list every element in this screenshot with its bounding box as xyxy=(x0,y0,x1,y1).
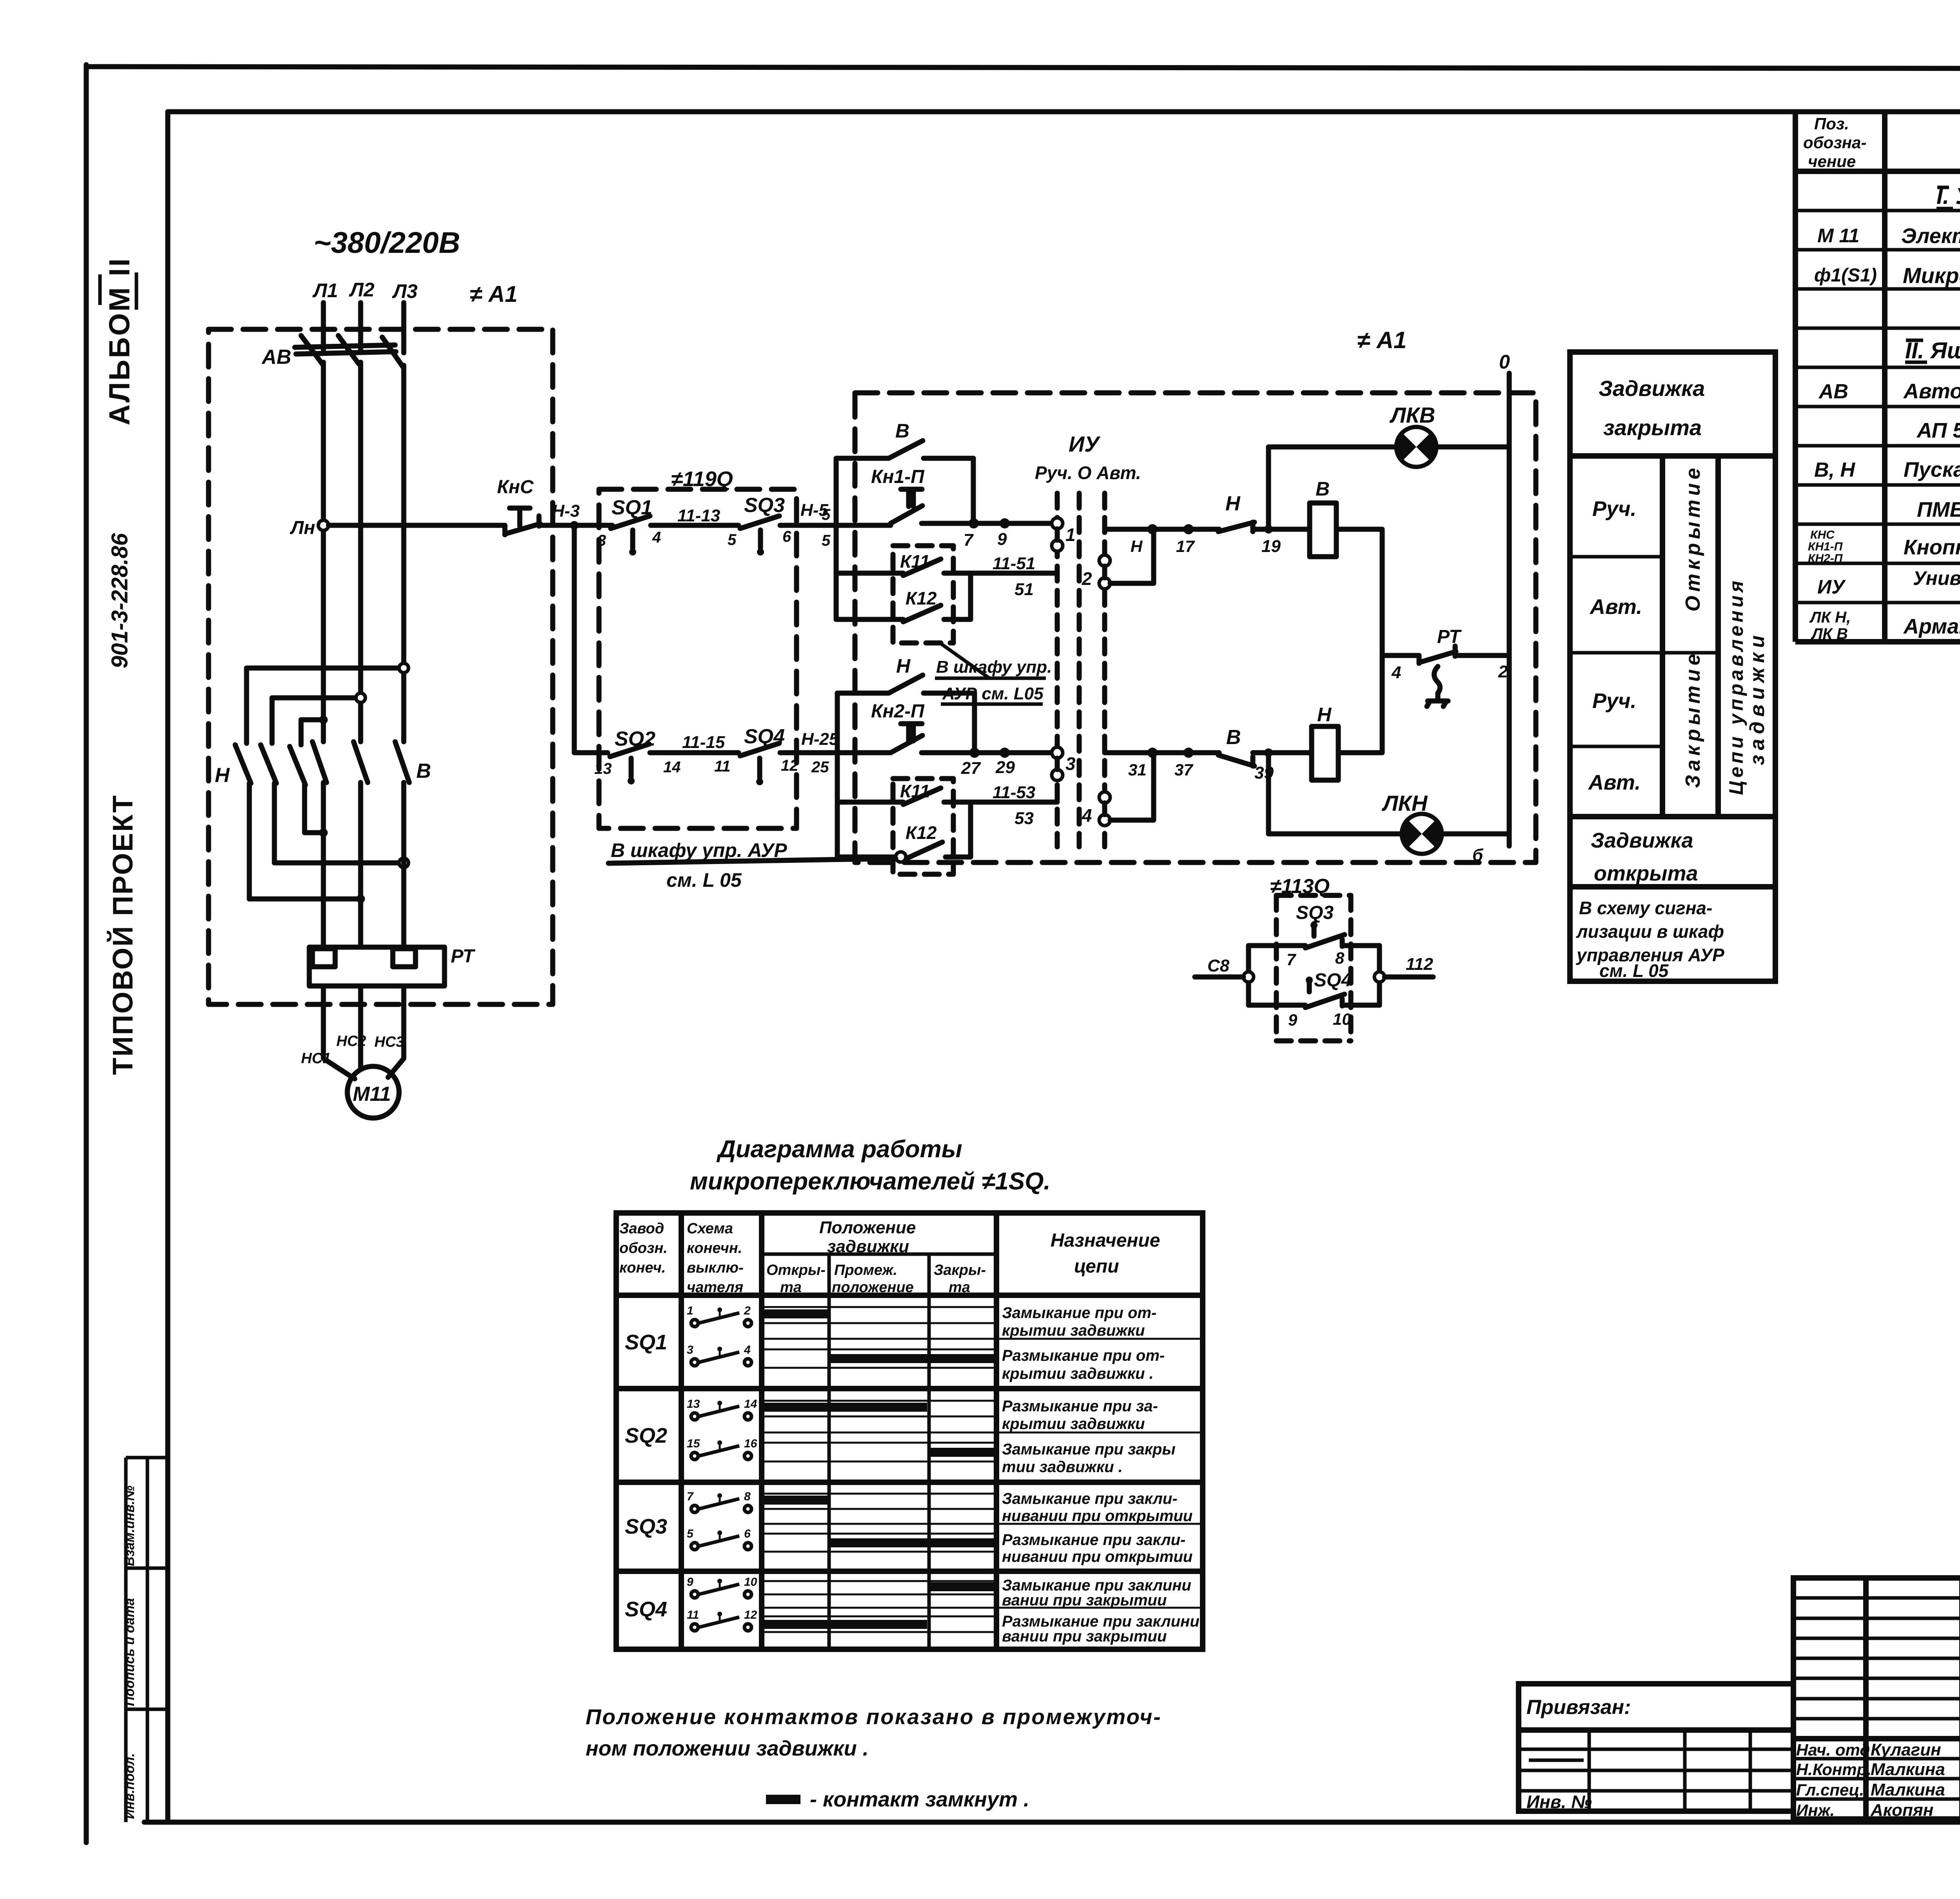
self hold contact В xyxy=(889,420,923,458)
svg-text:Поз.: Поз. xyxy=(1814,114,1849,133)
node 39 xyxy=(1253,750,1312,755)
auxiliary contact К11 lower xyxy=(837,781,971,804)
svg-text:2: 2 xyxy=(744,1304,751,1317)
wire Н-25 to lower button box xyxy=(780,750,891,755)
svg-text:37: 37 xyxy=(1174,761,1193,779)
svg-text:ИУ: ИУ xyxy=(1069,432,1101,456)
svg-text:Замыкание при закры: Замыкание при закры xyxy=(1002,1441,1176,1458)
svg-text:ф1(S1): ф1(S1) xyxy=(1814,265,1877,286)
svg-text:РТ: РТ xyxy=(1437,626,1462,647)
svg-text:крытии задвижки: крытии задвижки xyxy=(1002,1415,1145,1432)
svg-text:11-13: 11-13 xyxy=(677,506,720,525)
ИУ contact 4 with loop xyxy=(1082,753,1154,826)
svg-text:Арматура сигнальная АЕ-3211У: Арматура сигнальная АЕ-3211У3 xyxy=(1903,615,1960,638)
sidebar bottom table xyxy=(122,1458,168,1822)
svg-text:В: В xyxy=(1316,478,1330,500)
svg-text:Гл.спец.: Гл.спец. xyxy=(1796,1781,1864,1799)
svg-text:Цепи управления: Цепи управления xyxy=(1725,577,1747,795)
svg-text:Инв. №: Инв. № xyxy=(1526,1792,1592,1812)
svg-text:≠ А1: ≠ А1 xyxy=(1357,327,1406,353)
svg-text:закрыта: закрыта xyxy=(1603,415,1702,440)
svg-text:Н.Контр.: Н.Контр. xyxy=(1796,1760,1871,1779)
wires relay to motor xyxy=(323,986,404,1079)
svg-text:11: 11 xyxy=(714,758,731,775)
svg-text:4: 4 xyxy=(652,529,661,546)
node 19 xyxy=(1253,527,1310,532)
svg-text:Замыкание при от-: Замыкание при от- xyxy=(1002,1304,1156,1322)
svg-text:5: 5 xyxy=(687,1527,694,1540)
push button station Кн2 box xyxy=(837,693,975,857)
svg-text:Пускатель магнитный: Пускатель магнитный xyxy=(1904,458,1960,481)
svg-text:SQ4: SQ4 xyxy=(625,1598,667,1621)
svg-text:SQ3: SQ3 xyxy=(744,494,785,517)
note wire АУР lower xyxy=(608,839,896,891)
svg-text:К12: К12 xyxy=(906,822,937,843)
wire phase Л3 stub xyxy=(401,303,407,353)
diagram table grid xyxy=(616,1213,1203,1649)
diagram table header xyxy=(619,1218,1160,1296)
svg-text:АП 50-3МТ Iрасц.= 6,4А.: АП 50-3МТ Iрасц.= 6,4А. xyxy=(1916,419,1960,442)
wire main row Н through buttons xyxy=(922,750,1057,755)
svg-text:ИУ: ИУ xyxy=(1817,576,1846,598)
svg-text:КН2-П: КН2-П xyxy=(1808,552,1843,565)
push button Кн2-П xyxy=(871,701,925,753)
svg-text:12: 12 xyxy=(781,757,799,774)
svg-text:Малкина: Малкина xyxy=(1871,1760,1945,1779)
row I У механизма xyxy=(1936,183,1960,209)
push button Кн1-П xyxy=(871,467,925,523)
svg-text:Акопян: Акопян xyxy=(1870,1801,1933,1820)
svg-text:В, Н: В, Н xyxy=(1814,459,1855,481)
wire 11-13 xyxy=(651,523,739,528)
terminal 7 xyxy=(969,518,979,528)
svg-text:4: 4 xyxy=(1391,663,1401,682)
svg-text:Н: Н xyxy=(1131,537,1143,556)
svg-text:Взам.инв.№: Взам.инв.№ xyxy=(122,1485,137,1566)
svg-text:11-51: 11-51 xyxy=(993,554,1035,573)
svg-text:13: 13 xyxy=(594,760,612,777)
ИУ contact 1 xyxy=(1052,518,1076,551)
push button station Кн1 box xyxy=(836,458,973,619)
wire phase Л2 xyxy=(358,362,363,742)
svg-text:Н: Н xyxy=(1317,704,1332,726)
inner frame left xyxy=(165,112,171,1822)
svg-text:3: 3 xyxy=(1065,753,1076,774)
ИУ contact 3 xyxy=(1052,747,1076,781)
svg-text:Открытие: Открытие xyxy=(1682,464,1704,612)
wire 11-15 xyxy=(650,750,739,755)
svg-text:10: 10 xyxy=(744,1576,757,1589)
svg-text:НС2: НС2 xyxy=(336,1033,366,1049)
terminal 37 xyxy=(1183,748,1194,758)
sidebar text АЛЬБОМ II xyxy=(100,257,136,425)
svg-text:Размыкание при за-: Размыкание при за- xyxy=(1002,1398,1158,1415)
cabinet А1 control dashed box xyxy=(855,393,1536,862)
svg-text:25: 25 xyxy=(811,759,829,776)
svg-text:та: та xyxy=(780,1279,802,1296)
svg-text:9: 9 xyxy=(687,1576,693,1589)
svg-text:8: 8 xyxy=(744,1490,751,1503)
svg-text:крытии задвижки .: крытии задвижки . xyxy=(1002,1365,1154,1382)
wire lamp branch ЛКВ xyxy=(1269,447,1396,529)
svg-text:Л1: Л1 xyxy=(312,280,338,301)
wire 11-53 xyxy=(971,800,1057,805)
svg-text:задвижки: задвижки xyxy=(827,1237,909,1256)
svg-text:19: 19 xyxy=(1261,537,1281,556)
svg-text:- контакт замкнут .: - контакт замкнут . xyxy=(810,1788,1029,1811)
motor М11 xyxy=(347,1066,399,1118)
svg-text:К12: К12 xyxy=(906,588,937,608)
svg-text:см. L 05: см. L 05 xyxy=(1599,960,1669,981)
svg-text:Закрытие: Закрытие xyxy=(1682,650,1704,788)
svg-text:Н: Н xyxy=(1225,492,1241,515)
switch SQ4 in 113Q xyxy=(1249,970,1379,1029)
svg-text:конеч.: конеч. xyxy=(619,1260,666,1276)
svg-text:открыта: открыта xyxy=(1594,862,1698,885)
svg-text:В: В xyxy=(416,760,431,782)
svg-text:Кн2-П: Кн2-П xyxy=(871,701,925,722)
auxiliary contact К12 xyxy=(836,573,971,622)
svg-text:Авт.: Авт. xyxy=(1588,771,1641,794)
row ф1 микропереключатель xyxy=(1814,254,1960,290)
block 113Q side rails and terminals xyxy=(1195,946,1434,1005)
svg-text:нивании при открытии: нивании при открытии xyxy=(1002,1548,1192,1565)
signal lamp ЛКН xyxy=(1381,791,1484,865)
limit switch SQ3 xyxy=(728,494,791,556)
wire phase Л3 xyxy=(401,365,407,742)
limit switch block ≠113Q xyxy=(1270,875,1351,1041)
svg-text:Электродвигатель 4АХС80А4-3: Электродвигатель 4АХС80А4-3 xyxy=(1901,224,1960,248)
terminal 31 xyxy=(1147,748,1158,758)
svg-text:3: 3 xyxy=(597,532,606,549)
svg-text:SQ3: SQ3 xyxy=(1296,902,1334,923)
svg-text:7: 7 xyxy=(1287,950,1296,969)
svg-text:14: 14 xyxy=(744,1398,757,1411)
limit switch SQ2 xyxy=(594,728,681,784)
inner frame top xyxy=(168,109,1960,114)
universal switch ИУ xyxy=(1035,432,1141,847)
svg-text:Н: Н xyxy=(215,764,230,787)
svg-text:7: 7 xyxy=(964,530,974,550)
svg-text:Подпись и дата: Подпись и дата xyxy=(122,1598,137,1706)
row кнопка управления xyxy=(1808,528,1960,565)
svg-text:Положение контактов показа: Положение контактов показано в промежуто… xyxy=(586,1705,1162,1729)
svg-text:Л3: Л3 xyxy=(392,280,417,302)
stop button КнС xyxy=(497,477,540,535)
ИУ contact 2 with loop xyxy=(1082,529,1154,589)
svg-text:53: 53 xyxy=(1014,809,1034,828)
note wire АУР upper xyxy=(935,642,1052,704)
svg-text:Нач. отд: Нач. отд xyxy=(1796,1741,1870,1759)
svg-text:вании при закрытии: вании при закрытии xyxy=(1002,1628,1167,1645)
svg-text:6: 6 xyxy=(744,1527,751,1540)
svg-text:Кнопка управления КЕ-011У3: Кнопка управления КЕ-011У3 xyxy=(1904,536,1960,559)
svg-text:С8: С8 xyxy=(1207,956,1230,975)
thermal contact РТ row xyxy=(1382,626,1509,706)
terminal 17 xyxy=(1183,524,1194,534)
svg-text:цепи: цепи xyxy=(1074,1256,1119,1277)
svg-text:5: 5 xyxy=(822,532,831,549)
svg-text:М11: М11 xyxy=(353,1083,391,1106)
svg-text:задвижки: задвижки xyxy=(1746,631,1769,765)
svg-text:Промеж.: Промеж. xyxy=(834,1262,897,1278)
svg-text:8: 8 xyxy=(1335,949,1345,967)
svg-text:Замыкание при закли-: Замыкание при закли- xyxy=(1002,1490,1178,1507)
svg-text:31: 31 xyxy=(1128,761,1147,779)
svg-text:б: б xyxy=(1472,846,1484,865)
svg-text:Задвижка: Задвижка xyxy=(1599,376,1705,401)
interlock contact В xyxy=(1218,726,1254,766)
row универсальный переключатель xyxy=(1817,567,1960,605)
svg-text:Лн: Лн xyxy=(290,517,315,538)
circuit breaker АВ xyxy=(295,336,403,367)
svg-text:В: В xyxy=(1226,726,1241,749)
svg-text:Авт.: Авт. xyxy=(1589,595,1642,619)
parts table header xyxy=(1803,114,1960,171)
svg-text:обозн.: обозн. xyxy=(619,1240,668,1256)
svg-text:Инв.подл.: Инв.подл. xyxy=(122,1753,137,1819)
wire row Н to relay xyxy=(1105,750,1219,755)
svg-text:27: 27 xyxy=(961,759,981,778)
svg-text:0: 0 xyxy=(1499,351,1510,373)
terminal Н xyxy=(1147,524,1158,534)
svg-text:Кн1-П: Кн1-П xyxy=(871,467,925,487)
svg-text:Малкина: Малкина xyxy=(1871,1780,1945,1799)
svg-text:Схема: Схема xyxy=(687,1220,733,1237)
svg-text:Инж.: Инж. xyxy=(1796,1801,1835,1819)
svg-text:1: 1 xyxy=(1065,525,1076,545)
switch SQ3 in 113Q xyxy=(1249,902,1379,969)
staff rows xyxy=(1796,1740,1945,1820)
svg-text:выклю-: выклю- xyxy=(687,1260,744,1276)
svg-text:В схему сигна-: В схему сигна- xyxy=(1579,898,1712,918)
svg-text:Привязан:: Привязан: xyxy=(1526,1696,1631,1719)
svg-text:2: 2 xyxy=(1082,568,1092,589)
svg-text:Н-25: Н-25 xyxy=(801,730,839,749)
wire phases to thermal relay xyxy=(323,782,404,947)
svg-text:Назначение: Назначение xyxy=(1051,1230,1160,1251)
wire phase Л1 xyxy=(321,362,326,742)
svg-text:7: 7 xyxy=(687,1490,694,1503)
svg-text:1: 1 xyxy=(687,1304,693,1317)
neutral line 0 xyxy=(1499,351,1510,846)
row М11 электродвигатель xyxy=(1817,224,1960,248)
svg-text:микропереключателей ≠1SQ.: микропереключателей ≠1SQ. xyxy=(690,1168,1051,1195)
row АВ автоматический выключатель xyxy=(1818,379,1960,403)
svg-text:ЛК В: ЛК В xyxy=(1811,625,1848,643)
interlock contact Н xyxy=(1218,492,1254,532)
dashed box К11 К12 xyxy=(893,546,953,643)
svg-text:≠119Q: ≠119Q xyxy=(671,467,733,491)
svg-text:3: 3 xyxy=(687,1343,693,1356)
svg-text:6: 6 xyxy=(782,528,791,545)
svg-text:НС1: НС1 xyxy=(301,1050,331,1067)
svg-text:Диаграмма работы: Диаграмма работы xyxy=(716,1136,962,1163)
row АП 50-3МТ xyxy=(1916,419,1960,442)
svg-text:Руч.: Руч. xyxy=(1592,689,1637,713)
limit switch SQ1 xyxy=(597,496,661,556)
auxiliary contact К12 lower xyxy=(837,802,971,862)
svg-text:2: 2 xyxy=(1498,662,1508,681)
row В Н пускатель магнитный xyxy=(1814,458,1960,481)
svg-text:М 11: М 11 xyxy=(1817,225,1859,247)
coil В xyxy=(1310,478,1336,557)
wire phase Л1 stub xyxy=(321,303,326,350)
svg-text:лизации в шкаф: лизации в шкаф xyxy=(1576,921,1724,942)
wire control feed xyxy=(328,523,505,528)
limit switch SQ4 xyxy=(714,725,799,785)
svg-text:ном положении задвижки .: ном положении задвижки . xyxy=(586,1737,869,1760)
svg-text:5: 5 xyxy=(822,506,831,523)
svg-text:РТ: РТ xyxy=(451,946,475,967)
svg-text:ЛКВ: ЛКВ xyxy=(1389,403,1435,427)
svg-text:чение: чение xyxy=(1808,152,1856,171)
svg-text:SQ4: SQ4 xyxy=(1314,970,1352,991)
dashed box К11 К12 lower xyxy=(893,779,953,874)
svg-text:нивании при открытии: нивании при открытии xyxy=(1002,1507,1192,1525)
svg-text:29: 29 xyxy=(995,758,1015,777)
svg-text:чателя: чателя xyxy=(687,1279,743,1296)
terminal 27 xyxy=(969,748,980,758)
wires H poles down and cross connections xyxy=(249,783,408,903)
wire Н-5 to button box xyxy=(780,523,891,528)
svg-text:Размыкание при закли-: Размыкание при закли- xyxy=(1002,1531,1186,1549)
svg-text:Автоматический выключатель: Автоматический выключатель xyxy=(1903,379,1960,403)
svg-text:Положение: Положение xyxy=(819,1218,916,1237)
svg-text:см. L 05: см. L 05 xyxy=(666,869,742,891)
diagram row SQ1 xyxy=(625,1304,1203,1382)
svg-text:15: 15 xyxy=(687,1437,701,1450)
svg-text:ПМЕ-114 ~220 В, Iнз. =4А.: ПМЕ-114 ~220 В, Iнз. =4А. xyxy=(1917,498,1960,521)
wire phase Л2 stub xyxy=(358,303,363,350)
svg-text:ЛК Н,: ЛК Н, xyxy=(1809,609,1851,626)
coil Н xyxy=(1312,704,1338,780)
diagram row SQ2 xyxy=(625,1398,1203,1476)
diagram row SQ4 xyxy=(625,1576,1203,1645)
terminal 29 xyxy=(1000,748,1010,758)
svg-text:17: 17 xyxy=(1176,537,1195,556)
reverse contactor H taps xyxy=(247,663,408,745)
svg-text:та: та xyxy=(949,1279,970,1296)
svg-text:Откры-: Откры- xyxy=(766,1262,826,1278)
wire lamp branch ЛКН xyxy=(1269,753,1401,834)
thermal relay РТ heaters xyxy=(309,946,475,986)
svg-text:10: 10 xyxy=(1333,1010,1351,1028)
wire coil В to riser xyxy=(1336,529,1382,655)
svg-text:≠ А1: ≠ А1 xyxy=(470,281,517,307)
svg-text:вании при закрытии: вании при закрытии xyxy=(1002,1592,1167,1609)
wire to node Н-3 xyxy=(540,523,606,528)
svg-text:11-53: 11-53 xyxy=(993,783,1035,802)
svg-text:Микропереключатель: Микропереключатель xyxy=(1903,263,1960,288)
svg-text:крытии задвижки: крытии задвижки xyxy=(1002,1322,1145,1339)
svg-text:4: 4 xyxy=(1082,805,1092,826)
row ПМЕ-114 xyxy=(1917,498,1960,521)
svg-text:11-15: 11-15 xyxy=(682,733,725,752)
cabinet A1 power dashed box xyxy=(209,329,553,1004)
svg-text:SQ1: SQ1 xyxy=(625,1331,667,1354)
svg-text:Руч. О Авт.: Руч. О Авт. xyxy=(1035,463,1141,483)
signal lamp ЛКВ xyxy=(1389,403,1436,467)
svg-text:~380/220В: ~380/220В xyxy=(314,226,460,260)
svg-text:112: 112 xyxy=(1406,955,1434,974)
svg-text:конечн.: конечн. xyxy=(687,1240,742,1256)
svg-text:В шкафу упр.: В шкафу упр. xyxy=(936,657,1052,677)
svg-text:5: 5 xyxy=(728,531,737,548)
terminal 9 xyxy=(1000,518,1010,528)
svg-text:Л2: Л2 xyxy=(349,279,374,301)
row арматура сигнальная xyxy=(1809,609,1960,643)
svg-text:Кулагин: Кулагин xyxy=(1871,1740,1941,1759)
node Н-3 xyxy=(570,521,579,530)
svg-text:SQ2: SQ2 xyxy=(625,1424,667,1447)
sheet frame bottom xyxy=(144,1820,1960,1825)
svg-text:КНС: КНС xyxy=(1810,528,1835,541)
svg-text:14: 14 xyxy=(663,759,681,776)
sheet outer frame top xyxy=(86,67,1960,69)
svg-text:Закры-: Закры- xyxy=(934,1262,986,1278)
svg-text:51: 51 xyxy=(1014,580,1034,599)
svg-text:Н-3: Н-3 xyxy=(552,501,580,521)
auxiliary contact К11 xyxy=(836,551,971,576)
svg-text:9: 9 xyxy=(997,530,1007,549)
svg-text:13: 13 xyxy=(687,1398,700,1411)
contactor Н poles xyxy=(215,745,305,787)
legend контакт замкнут xyxy=(766,1795,800,1804)
cell в схему сигнализации xyxy=(1576,898,1724,981)
contactor В poles xyxy=(312,742,431,782)
svg-text:SQ3: SQ3 xyxy=(625,1515,667,1538)
svg-text:В: В xyxy=(895,420,909,442)
svg-text:ТИПОВОЙ ПРОЕКТ: ТИПОВОЙ ПРОЕКТ xyxy=(107,794,139,1075)
row II ящик управления xyxy=(1905,338,1960,363)
wire branch down to SQ2 row xyxy=(574,525,608,753)
svg-text:Завод: Завод xyxy=(619,1220,664,1237)
svg-text:Универсальный переключатель: Универсальный переключатель xyxy=(1913,567,1960,589)
wire row V to relay xyxy=(1105,527,1219,532)
svg-text:КН1-П: КН1-П xyxy=(1808,540,1843,553)
node Лн xyxy=(318,520,328,530)
wire coil Н to riser xyxy=(1338,655,1382,753)
svg-text:901-3-228.86: 901-3-228.86 xyxy=(107,533,132,668)
svg-text:16: 16 xyxy=(744,1437,757,1450)
svg-text:АВ: АВ xyxy=(261,346,291,369)
svg-text:обозна-: обозна- xyxy=(1803,133,1866,152)
svg-text:9: 9 xyxy=(1288,1011,1298,1029)
svg-text:Размыкание при от-: Размыкание при от- xyxy=(1002,1347,1165,1364)
svg-text:Руч.: Руч. xyxy=(1592,497,1637,521)
svg-text:Задвижка: Задвижка xyxy=(1591,829,1693,852)
wire 11-51 xyxy=(971,571,1057,576)
wire main row V through buttons xyxy=(922,521,1057,526)
Привязан table xyxy=(1519,1684,1793,1812)
svg-text:11: 11 xyxy=(687,1609,699,1621)
svg-text:КнС: КнС xyxy=(497,477,534,497)
svg-text:положение: положение xyxy=(832,1279,914,1296)
svg-text:В шкафу упр. АУР: В шкафу упр. АУР xyxy=(611,839,787,861)
diagram row SQ3 xyxy=(625,1490,1203,1565)
limit switch box ≠119Q dashed xyxy=(599,489,797,828)
svg-text:4: 4 xyxy=(744,1343,751,1356)
svg-text:АЛЬБОМ II: АЛЬБОМ II xyxy=(103,257,136,425)
svg-text:Н: Н xyxy=(896,655,911,677)
sheet outer frame left xyxy=(84,65,89,1843)
self hold contact Н xyxy=(889,655,923,693)
svg-text:12: 12 xyxy=(744,1609,757,1621)
svg-text:АВ: АВ xyxy=(1818,380,1848,403)
svg-text:тии задвижки .: тии задвижки . xyxy=(1002,1458,1123,1476)
svg-text:НС3: НС3 xyxy=(374,1034,404,1050)
